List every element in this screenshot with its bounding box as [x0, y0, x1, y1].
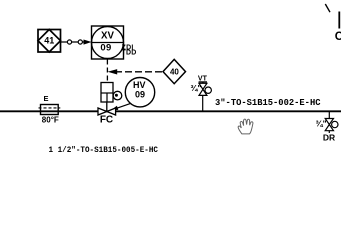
svg-text:DR: DR [323, 133, 335, 143]
svg-text:1 1/2"-TO-S1B15-005-E-HC: 1 1/2"-TO-S1B15-005-E-HC [49, 145, 159, 153]
svg-text:¾": ¾" [190, 83, 201, 93]
svg-text:40: 40 [170, 68, 179, 77]
svg-text:FC: FC [100, 114, 113, 125]
svg-text:XV: XV [101, 30, 114, 41]
svg-text:80°F: 80°F [42, 115, 59, 124]
svg-text:C: C [335, 31, 341, 43]
svg-text:41: 41 [44, 36, 54, 46]
svg-text:09: 09 [100, 43, 111, 54]
svg-text:¾": ¾" [316, 118, 327, 128]
svg-text:TDD: TDD [122, 50, 137, 57]
svg-text:3"-TO-S1B15-002-E-HC: 3"-TO-S1B15-002-E-HC [215, 97, 321, 108]
svg-text:E: E [43, 94, 48, 103]
svg-text:09: 09 [135, 89, 145, 99]
